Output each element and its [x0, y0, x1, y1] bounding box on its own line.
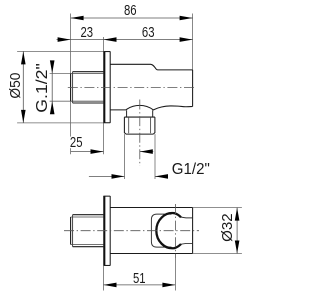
dimension D50 extension lines [17, 50, 103, 52]
wire: tube top edge (plan) [110, 207, 192, 209]
node: inlet end face (plan) [70, 217, 72, 245]
node: inlet thread root top [71, 73, 104, 75]
wire: tube right edge (plan) [192, 208, 194, 254]
node: inlet nipple end face [70, 74, 72, 102]
wire: extension line left (inlet face, dims 86/23/25) [70, 14, 72, 155]
node: inlet thread OD bottom (plan) [73, 246, 104, 248]
dimension 23/63 line [57, 39, 193, 41]
node: inlet thread root top (plan) [71, 216, 104, 218]
wire: extension line outlet right [154, 134, 156, 179]
wire: extension line dim 51 left (wall face) [103, 266, 105, 291]
node: flange bottom edge [103, 122, 110, 124]
node: inlet thread root bottom (plan) [71, 244, 104, 246]
node: flange wall face thick (plan) [103, 196, 105, 266]
dimension G.1/2 extension lines [50, 73, 71, 75]
wire: horizontal centerline (plan) [64, 230, 199, 232]
node: flange top edge [103, 51, 110, 53]
svg-text:G.1/2": G.1/2" [34, 63, 51, 113]
node: outlet collar left side with chamfer [124, 117, 126, 134]
node: flange wall face (thick) [103, 51, 105, 123]
svg-text:51: 51 [133, 271, 146, 287]
dimension G1/2 line [89, 175, 125, 177]
wire: horizontal centerline top view [68, 87, 196, 89]
wire: outlet vertical centerline [139, 100, 141, 167]
node: outlet boss left edge [126, 110, 128, 117]
dimension D50 line [22, 51, 24, 123]
dimension 51 line [104, 284, 176, 286]
node: inlet chamfer line [72, 72, 74, 103]
node: outlet collar top [124, 116, 154, 118]
wire: holder centerline extension for dim 51 [174, 258, 176, 291]
node: outlet collar right side with chamfer [153, 117, 155, 134]
node: flange back edge (plan) [109, 196, 111, 266]
node: outlet collar bottom [126, 133, 153, 135]
svg-text:23: 23 [81, 25, 94, 41]
wire: holder right edge [192, 70, 194, 107]
dimension D32 line [236, 208, 238, 254]
node: holder bell outline [151, 214, 171, 247]
node: inlet thread OD top [73, 71, 104, 73]
svg-text:25: 25 [70, 135, 83, 151]
dimension 25 line [71, 151, 104, 153]
node: flange top edge (plan) [103, 195, 110, 197]
svg-text:G1/2": G1/2" [172, 161, 210, 178]
wire: body top edge with step fillet [110, 64, 192, 70]
dimension 86 line [71, 17, 193, 19]
node: outlet thread root left [128, 117, 130, 133]
wire: tube bottom edge (plan) [110, 253, 192, 255]
node: holder prong notch top [181, 216, 193, 219]
node: holder prong notch bottom [181, 242, 193, 245]
node: flange bottom edge (plan) [103, 264, 110, 266]
wire: extension line outlet left [124, 134, 126, 179]
svg-text:86: 86 [124, 3, 137, 19]
node: inlet thread OD top (plan) [73, 214, 104, 216]
wire: extension line mid (flange face, dims 23/63) upper [103, 37, 105, 51]
node: inlet chamfer line (plan) [72, 215, 74, 247]
dimension 25 text mask [69, 137, 83, 149]
wire: extension lines dim D32 [193, 207, 242, 209]
node: inlet thread root bottom [71, 100, 104, 102]
wire: extension line mid (flange face, dim 25) lower [103, 123, 105, 154]
node: inlet thread OD bottom [73, 102, 104, 104]
node: outlet thread root right [150, 117, 152, 133]
svg-text:63: 63 [142, 25, 155, 41]
wire: holder vertical centerline (plan) [174, 204, 176, 258]
node: holder C-ring (thick arc) [156, 213, 181, 248]
svg-text:Ø32: Ø32 [220, 213, 236, 242]
svg-text:Ø50: Ø50 [8, 73, 24, 99]
dimension G.1/2 line [51, 61, 53, 114]
node: outlet boss right edge [152, 110, 154, 117]
node: flange back edge [109, 51, 111, 123]
wire: extension line right (holder edge, dims 86/63) [192, 14, 194, 70]
wire: body bottom edge with outlet dome and holder underside [110, 105, 192, 110]
